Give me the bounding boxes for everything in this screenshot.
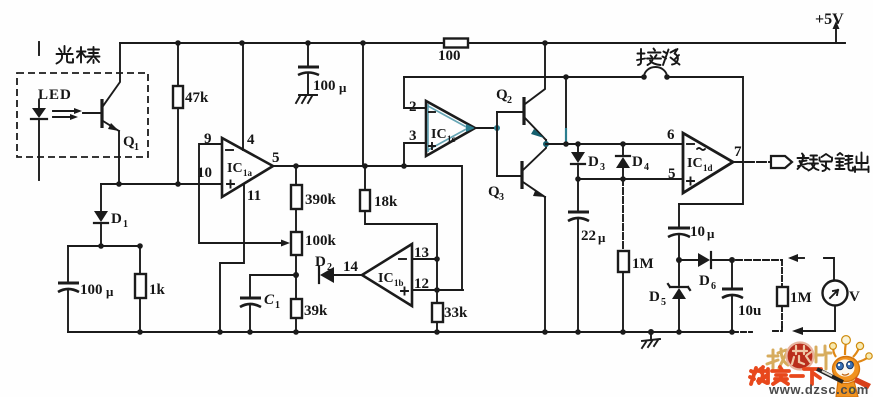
node main line 18k: [362, 163, 368, 169]
svg-text:D: D: [649, 289, 660, 305]
node x566 on line: [563, 141, 569, 147]
wire D1 bottom node line: [68, 245, 140, 247]
svg-text:3: 3: [600, 162, 605, 173]
svg-text:100: 100: [313, 78, 336, 94]
label 光棒: [57, 46, 100, 64]
node rail x220: [217, 329, 223, 335]
svg-text:7: 7: [734, 144, 742, 160]
resistor 1M right: [771, 287, 812, 331]
svg-text:1d: 1d: [703, 163, 713, 173]
svg-text:47k: 47k: [185, 90, 209, 106]
svg-text:390k: 390k: [305, 192, 337, 208]
node 10u right top: [729, 257, 735, 263]
watermark 维库一下 red text: [750, 367, 821, 384]
svg-text:4: 4: [644, 162, 649, 173]
wire rail to main line x363: [362, 43, 364, 166]
svg-text:D: D: [632, 154, 643, 170]
wire bottom ground rail: [68, 331, 738, 333]
watermark mascot: [817, 336, 872, 397]
ground symbol: [642, 332, 660, 348]
node rail x651: [648, 329, 654, 335]
arrow left top: [788, 254, 804, 262]
node rail x437: [434, 329, 440, 335]
svg-text:6: 6: [667, 127, 675, 143]
svg-text:1c: 1c: [447, 134, 456, 144]
node main line 390k: [293, 163, 299, 169]
wire IC1a pin4 to top rail: [242, 43, 244, 150]
wire Q1 collector to rail: [103, 43, 120, 106]
LED D symbol: [31, 100, 47, 180]
wire jump 接线 hop: [644, 67, 667, 77]
diode D1: [94, 184, 128, 246]
diode D2: [315, 254, 362, 283]
wire main signal line from IC1a output: [273, 166, 462, 290]
svg-text:1M: 1M: [790, 290, 812, 306]
node rail x679: [676, 329, 682, 335]
arrow left bottom: [792, 327, 835, 335]
diode D4: [616, 144, 649, 179]
op-amp IC1c: [409, 99, 475, 156]
resistor 39k: [291, 275, 328, 332]
svg-text:2: 2: [327, 262, 332, 273]
op-amp IC1a: [197, 131, 280, 204]
svg-text:10u: 10u: [738, 303, 761, 319]
capacitor 10u right: [722, 260, 761, 332]
svg-text:IC: IC: [227, 161, 243, 176]
svg-text:5: 5: [661, 297, 666, 308]
node emitter/collector junction: [543, 141, 549, 147]
resistor 47k: [173, 43, 209, 184]
watermark logo 片 character: [816, 346, 831, 369]
capacitor 100u top with ground: [296, 43, 347, 103]
wire IC1a pin11 to ground rail: [220, 184, 244, 332]
wire D3/D4 bottom line to IC1d pin5: [578, 178, 683, 180]
svg-text:2: 2: [409, 99, 417, 115]
node rail x623: [620, 329, 626, 335]
wire IC1c pin2 to rail2: [404, 77, 426, 108]
node rail x250: [247, 329, 253, 335]
potentiometer 100k: [291, 232, 337, 275]
connector digital output symbol: [771, 156, 792, 168]
wire IC1a pin9 feedback to 100k wiper: [199, 144, 283, 243]
wire IC1d output to connector: [733, 161, 771, 163]
node pin13 junction: [434, 256, 440, 262]
node top rail junction x242: [239, 40, 245, 46]
diode D6: [679, 252, 732, 292]
wire IC1c pin3 to main line: [404, 143, 426, 166]
svg-text:100k: 100k: [305, 233, 337, 249]
label 数字输出: [798, 153, 869, 173]
svg-text:D: D: [588, 154, 599, 170]
capacitor C1: [240, 275, 296, 332]
wire D3/D4 top line to IC1d pin6: [546, 143, 683, 145]
svg-text:1: 1: [123, 219, 128, 230]
node rail x545: [542, 329, 548, 335]
node D2/39k/C1 junction: [293, 272, 299, 278]
node D5/D6/10u junction: [676, 257, 682, 263]
svg-text:V: V: [849, 289, 860, 305]
svg-text:+5V: +5V: [815, 11, 844, 28]
svg-text:1: 1: [134, 142, 139, 153]
power +5V terminal: [815, 11, 844, 43]
node pin12 junction: [434, 287, 440, 293]
wire dashed to external meter top: [736, 259, 782, 261]
capacitor 100u left: [58, 246, 114, 332]
svg-text:1b: 1b: [394, 278, 404, 288]
node D1 bottom: [98, 243, 104, 249]
node 1k top: [137, 243, 143, 249]
svg-text:10: 10: [690, 224, 705, 240]
svg-text:D: D: [111, 211, 122, 227]
svg-text:2: 2: [507, 95, 512, 106]
svg-text:14: 14: [343, 259, 359, 275]
svg-text:1: 1: [275, 300, 280, 311]
wire x566 down to D3 line: [565, 77, 567, 128]
transistor Q1 phototransistor: [83, 99, 139, 184]
meter V: [823, 258, 861, 331]
svg-text:1k: 1k: [149, 282, 166, 298]
wire IC1b pin13 stub: [412, 258, 437, 260]
node top rail junction x308: [305, 40, 311, 46]
svg-text:33k: 33k: [444, 305, 468, 321]
diode D5: [649, 260, 690, 332]
resistor 390k: [291, 166, 337, 232]
node top rail junction x178: [175, 40, 181, 46]
diode D3: [571, 144, 605, 179]
wire +5V secondary rail: [404, 76, 644, 78]
svg-text:100: 100: [80, 282, 103, 298]
watermark logo 找 character: [767, 349, 788, 368]
node D3 top: [575, 141, 581, 147]
svg-text:3: 3: [499, 192, 504, 203]
node D4 top: [620, 141, 626, 147]
label 接线: [637, 49, 680, 66]
wire IC1c output node: [475, 127, 497, 129]
node pin10/Q1 emitter junction: [116, 181, 122, 187]
capacitor 10u top branch: [668, 204, 715, 260]
svg-text:μ: μ: [339, 80, 347, 95]
svg-text:μ: μ: [707, 226, 715, 241]
svg-text:4: 4: [247, 132, 255, 148]
svg-text:μ: μ: [106, 284, 114, 299]
svg-text:LED: LED: [38, 87, 72, 103]
wire top +5V rail right segment: [468, 42, 845, 44]
svg-text:C: C: [264, 292, 275, 308]
node rail x732: [729, 329, 735, 335]
transistor Q2: [496, 43, 546, 144]
svg-text:1a: 1a: [243, 168, 253, 178]
node main line IC1c pin3: [401, 163, 407, 169]
svg-text:μ: μ: [598, 230, 606, 245]
svg-text:IC: IC: [431, 127, 447, 142]
op-amp IC1b (points left): [362, 244, 429, 306]
label 光棒 tick mark: [38, 42, 40, 55]
svg-text:IC: IC: [687, 156, 703, 171]
wire top +5V rail left segment: [120, 42, 444, 44]
node pin10/47k junction: [175, 181, 181, 187]
svg-text:39k: 39k: [304, 303, 328, 319]
svg-text:11: 11: [247, 188, 261, 204]
node rail x296: [293, 329, 299, 335]
node top rail junction x363: [360, 40, 366, 46]
wire IC1b pin12 line: [412, 289, 463, 291]
svg-text:IC: IC: [378, 271, 394, 286]
svg-text:18k: 18k: [374, 194, 398, 210]
svg-text:1M: 1M: [632, 256, 654, 272]
resistor 100: [438, 39, 468, 65]
capacitor 22u: [568, 179, 606, 332]
transistor Q3: [488, 144, 546, 332]
resistor 33k: [432, 290, 468, 332]
node D3 bottom: [575, 176, 581, 182]
wire IC1a pin10 input line: [101, 183, 222, 185]
light emission arrows: [53, 108, 82, 120]
svg-text:3: 3: [409, 128, 417, 144]
node rail x140: [137, 329, 143, 335]
node rail x578: [575, 329, 581, 335]
watermark logo red circle 芯: [787, 343, 814, 370]
resistor 1M left: [618, 179, 654, 332]
node D4 bottom: [620, 176, 626, 182]
svg-text:6: 6: [711, 281, 716, 292]
node rail2 x566: [563, 74, 569, 80]
resistor 18k: [360, 166, 437, 290]
svg-text:22: 22: [581, 228, 596, 244]
svg-text:100: 100: [438, 48, 461, 64]
dashed box photodetector assembly: [17, 73, 148, 157]
svg-text:D: D: [699, 273, 710, 289]
svg-text:www.dzsc.com: www.dzsc.com: [768, 382, 869, 397]
svg-text:5: 5: [668, 166, 676, 182]
node top rail junction x545: [542, 40, 548, 46]
svg-text:5: 5: [272, 150, 280, 166]
svg-text:D: D: [315, 254, 326, 270]
op-amp IC1d: [667, 127, 742, 193]
resistor 1k: [135, 246, 166, 332]
